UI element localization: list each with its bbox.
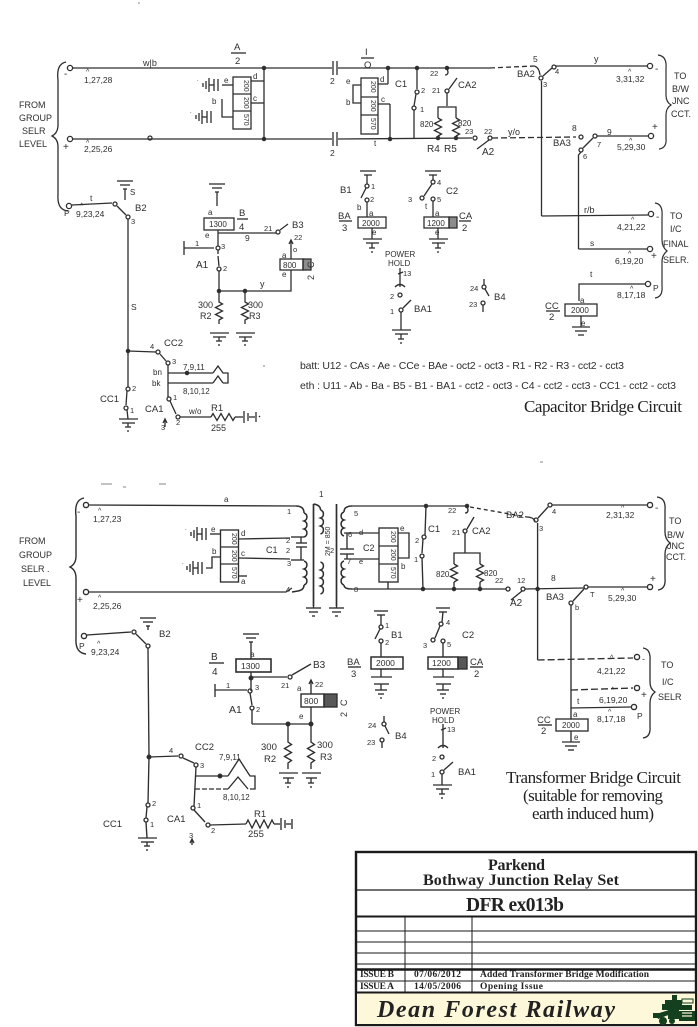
wire 7,9,11 with link bbox=[168, 372, 213, 374]
svg-text:2: 2 bbox=[330, 148, 335, 158]
svg-text:9,23,24: 9,23,24 bbox=[76, 209, 105, 219]
contact CA2 bbox=[430, 69, 476, 95]
svg-text:24: 24 bbox=[470, 284, 478, 293]
svg-text:GROUP: GROUP bbox=[19, 113, 52, 123]
svg-text:C1: C1 bbox=[428, 524, 440, 535]
svg-text:4: 4 bbox=[169, 746, 173, 755]
svg-text:O: O bbox=[364, 60, 371, 71]
wire 8,10,12 bbox=[168, 382, 213, 384]
svg-text:1300: 1300 bbox=[209, 220, 227, 229]
svg-text:22: 22 bbox=[495, 576, 503, 585]
resistor R1 255 2 bbox=[246, 820, 274, 828]
svg-text:2: 2 bbox=[390, 292, 394, 301]
svg-text:b: b bbox=[346, 98, 351, 107]
coil2 stub e with capacitor bbox=[210, 533, 221, 535]
brace TO B/W JNC CCT 2 bbox=[657, 497, 670, 590]
contact BA3 2 bbox=[546, 573, 595, 612]
svg-text:570: 570 bbox=[389, 567, 396, 579]
svg-text:200: 200 bbox=[230, 533, 237, 545]
empty row line bbox=[356, 963, 696, 965]
svg-text:C: C bbox=[306, 261, 316, 268]
terminal 5,29,30 bbox=[648, 133, 653, 138]
ground above B4 relay bbox=[209, 183, 225, 185]
contact CC1 bbox=[100, 384, 136, 415]
svg-text:5: 5 bbox=[437, 195, 441, 204]
wire top rail dashed to BA2 bbox=[490, 66, 534, 68]
contact B2 bbox=[113, 202, 117, 206]
svg-text:LEVEL: LEVEL bbox=[23, 578, 51, 588]
svg-text:c: c bbox=[381, 95, 385, 104]
svg-text:-: - bbox=[64, 69, 67, 80]
winding ratio label bbox=[325, 527, 332, 556]
contact K13 power hold 2 bbox=[432, 725, 455, 763]
svg-text:3: 3 bbox=[543, 80, 547, 89]
contact C2 bbox=[431, 180, 435, 184]
ground CA/2 2 bbox=[442, 669, 444, 677]
svg-text:t: t bbox=[90, 193, 93, 203]
relay A/2 label bbox=[234, 42, 241, 67]
relay C/2 coil 800 bbox=[282, 251, 287, 279]
svg-text:1: 1 bbox=[431, 770, 435, 779]
svg-text:4: 4 bbox=[212, 667, 218, 678]
svg-text:TO: TO bbox=[674, 71, 686, 81]
battery end R1 2 bbox=[280, 818, 282, 830]
wire BA2-3 vertical down 2 bbox=[537, 523, 539, 660]
terminal label 2,25,26 bbox=[63, 140, 113, 154]
svg-text:3: 3 bbox=[131, 217, 135, 226]
R820 bracket 2 bbox=[454, 553, 480, 564]
wire t row 2 bbox=[571, 690, 631, 708]
wire 9 to terminal bbox=[597, 135, 648, 137]
wire to B3 2 bbox=[253, 676, 287, 678]
svg-text:2: 2 bbox=[330, 546, 334, 555]
svg-text:2000: 2000 bbox=[362, 219, 380, 228]
svg-text:DFR ex013b: DFR ex013b bbox=[466, 895, 564, 916]
relay BA/3 coil 2000 2 bbox=[347, 657, 360, 680]
wire C/2 top arrow 22 2 bbox=[310, 680, 312, 694]
empty row line bbox=[356, 941, 696, 943]
relay B/4 coil 1300 bbox=[205, 208, 245, 240]
svg-text:200: 200 bbox=[389, 549, 396, 561]
svg-text:07/06/2012: 07/06/2012 bbox=[414, 970, 461, 980]
svg-text:LEVEL: LEVEL bbox=[19, 139, 47, 149]
svg-text:CA1: CA1 bbox=[145, 404, 163, 415]
svg-text:21: 21 bbox=[432, 86, 440, 95]
battery ground R3 2 bbox=[302, 772, 321, 774]
svg-text:2: 2 bbox=[256, 705, 260, 714]
svg-text:R1: R1 bbox=[211, 403, 223, 414]
svg-text:14/05/2006: 14/05/2006 bbox=[414, 982, 461, 992]
svg-text:23: 23 bbox=[465, 127, 473, 136]
ground BA/3 bbox=[371, 228, 373, 239]
svg-text:bn: bn bbox=[153, 368, 162, 377]
svg-text:200: 200 bbox=[230, 550, 237, 562]
wire to R1 2 bbox=[210, 824, 246, 825]
wire top rail right 2 bbox=[352, 505, 467, 507]
terminal label P 9,23,24 bbox=[64, 193, 105, 219]
battery symbol above B1 bbox=[360, 170, 376, 172]
svg-text:a: a bbox=[250, 650, 255, 659]
svg-text:300: 300 bbox=[261, 742, 277, 753]
terminal 3,31,32 bbox=[647, 63, 652, 68]
svg-text:2: 2 bbox=[462, 223, 467, 234]
svg-text:ISSUE B: ISSUE B bbox=[360, 970, 395, 980]
battery symbol above C2 2 bbox=[436, 607, 450, 609]
svg-text:a: a bbox=[241, 577, 246, 586]
svg-text:6: 6 bbox=[348, 530, 352, 539]
svg-text:.: . bbox=[182, 560, 184, 566]
junction B2 to CC2 bbox=[126, 349, 129, 352]
wire top rail 2 bbox=[89, 505, 296, 506]
svg-text:8,10,12: 8,10,12 bbox=[183, 387, 210, 396]
transformer T2 secondary winding bbox=[344, 506, 352, 512]
svg-text:3: 3 bbox=[342, 223, 347, 234]
svg-text:B2: B2 bbox=[159, 629, 171, 640]
wire top rail cont bbox=[338, 67, 490, 69]
svg-text:1200: 1200 bbox=[432, 658, 451, 668]
contact A2 2 bbox=[495, 576, 525, 609]
wire CC2 down bbox=[167, 365, 169, 397]
svg-text:2000: 2000 bbox=[376, 658, 395, 668]
svg-text:C2: C2 bbox=[462, 630, 474, 641]
svg-text:2: 2 bbox=[211, 826, 215, 835]
relay BA/3 coil 2000 bbox=[338, 209, 377, 237]
resistor R2 300 2 bbox=[285, 724, 292, 769]
svg-text:21: 21 bbox=[281, 681, 289, 690]
svg-text:R3: R3 bbox=[320, 752, 332, 763]
svg-text:SELR.: SELR. bbox=[663, 255, 689, 265]
wire P row to B2 2 bbox=[87, 632, 131, 635]
svg-text:T: T bbox=[590, 590, 595, 599]
svg-text:22: 22 bbox=[294, 233, 302, 242]
svg-text:570: 570 bbox=[242, 114, 249, 126]
svg-text:t: t bbox=[590, 269, 593, 279]
terminal circle P row bbox=[66, 203, 71, 208]
contact B3 2 bbox=[288, 675, 292, 679]
svg-text:Capacitor Bridge Circuit: Capacitor Bridge Circuit bbox=[524, 397, 682, 416]
svg-text:e: e bbox=[205, 231, 210, 240]
title block outer border bbox=[356, 852, 696, 1025]
wire C/2 bottom 2 bbox=[310, 707, 312, 724]
svg-text:3: 3 bbox=[423, 641, 427, 650]
A/2 stub b with capacitor bbox=[222, 99, 233, 117]
terminal circle mid rail 2 bbox=[83, 589, 88, 594]
svg-text:Dean Forest Railway: Dean Forest Railway bbox=[376, 997, 615, 1023]
svg-text:7,9,11: 7,9,11 bbox=[183, 363, 205, 372]
empty row line bbox=[356, 952, 696, 954]
svg-text:A2: A2 bbox=[482, 147, 495, 158]
svg-text:1200: 1200 bbox=[427, 219, 445, 228]
svg-text:8,17,18: 8,17,18 bbox=[597, 714, 626, 724]
relay CC/2 bbox=[545, 296, 586, 328]
svg-text:R2: R2 bbox=[264, 754, 276, 765]
svg-text:t: t bbox=[374, 139, 377, 148]
ground R3 bbox=[236, 332, 255, 334]
svg-text:-: - bbox=[77, 507, 80, 518]
svg-text:+: + bbox=[651, 251, 657, 262]
svg-text:255: 255 bbox=[248, 829, 264, 840]
svg-text:BA3: BA3 bbox=[546, 592, 564, 603]
coil2 stub a bbox=[239, 575, 248, 577]
wire C/2 top up arrow 22 bbox=[290, 240, 292, 259]
issue A row line bbox=[356, 992, 696, 994]
svg-text:+: + bbox=[652, 122, 658, 133]
svg-text:A1: A1 bbox=[196, 260, 209, 271]
terminal circle top rail 2 bbox=[83, 502, 88, 507]
svg-text:2: 2 bbox=[541, 726, 546, 737]
svg-text:3: 3 bbox=[408, 195, 412, 204]
svg-text:1: 1 bbox=[385, 621, 389, 630]
svg-text:23: 23 bbox=[367, 738, 375, 747]
wire P row to B2 bbox=[72, 203, 112, 205]
relay CA/2 coil 1200 bbox=[435, 209, 473, 237]
A/2 stub c bbox=[251, 102, 264, 104]
svg-text:B1: B1 bbox=[391, 630, 403, 641]
svg-text:4,21,22: 4,21,22 bbox=[597, 666, 626, 676]
svg-text:a: a bbox=[224, 495, 229, 504]
svg-text:y/o: y/o bbox=[508, 127, 520, 137]
battery symbol above C2 bbox=[425, 170, 441, 172]
svg-text:d: d bbox=[253, 72, 257, 81]
svg-text:1: 1 bbox=[130, 406, 134, 415]
svg-text:I/C: I/C bbox=[662, 677, 674, 687]
wire A1 down bbox=[218, 271, 220, 291]
contact B1 2 bbox=[379, 625, 383, 629]
svg-text:3: 3 bbox=[287, 559, 291, 568]
wire 4,21,22 row dashed bbox=[538, 658, 633, 660]
wire bottom rail 2 bbox=[89, 588, 292, 592]
svg-text:R2: R2 bbox=[200, 311, 212, 321]
wire bottom rail cont bbox=[338, 138, 472, 139]
issue B row line bbox=[356, 980, 696, 982]
coil2r bottom stub bbox=[387, 582, 389, 589]
relay coil box 2 right bbox=[379, 528, 398, 582]
divider line bbox=[356, 889, 696, 891]
I/O left bracket e b bbox=[353, 85, 361, 103]
svg-text:CCT.: CCT. bbox=[666, 552, 686, 562]
svg-text:CC2: CC2 bbox=[164, 338, 183, 349]
svg-text:CCT.: CCT. bbox=[671, 109, 691, 119]
transformer middle winding bbox=[314, 504, 321, 510]
svg-text:13: 13 bbox=[403, 269, 411, 278]
svg-text:t: t bbox=[577, 696, 580, 706]
svg-text:4: 4 bbox=[286, 585, 290, 594]
wire rail under A1 2 bbox=[252, 723, 311, 725]
svg-text:BA1: BA1 bbox=[458, 767, 476, 778]
svg-text:9,23,24: 9,23,24 bbox=[91, 647, 120, 657]
svg-text:CA1: CA1 bbox=[167, 814, 185, 825]
wire 8,10,12 2 bbox=[195, 788, 228, 790]
ground above B4 relay 2 bbox=[243, 633, 259, 635]
node C1 top bbox=[415, 66, 418, 69]
capacitor 2 in bottom rail bbox=[332, 132, 334, 146]
svg-text:2: 2 bbox=[286, 536, 290, 545]
ground CA/2 bbox=[437, 228, 439, 239]
svg-text:+: + bbox=[650, 574, 656, 585]
svg-text:5: 5 bbox=[354, 509, 358, 518]
svg-text:I: I bbox=[365, 47, 368, 58]
ground CC1 bbox=[119, 418, 138, 420]
label w|b bbox=[142, 58, 157, 68]
svg-text:+: + bbox=[63, 142, 69, 153]
svg-text:Added Transformer Bridge Modif: Added Transformer Bridge Modification bbox=[480, 970, 650, 980]
svg-text:e: e bbox=[346, 77, 351, 86]
svg-text:1: 1 bbox=[197, 801, 201, 810]
svg-text:2: 2 bbox=[306, 275, 316, 280]
svg-text:1: 1 bbox=[173, 393, 177, 402]
svg-text:570: 570 bbox=[230, 567, 237, 579]
svg-text:B4: B4 bbox=[494, 292, 506, 303]
svg-text:I/C: I/C bbox=[670, 224, 682, 234]
svg-text:2: 2 bbox=[474, 669, 479, 680]
contact B1 bbox=[365, 184, 369, 188]
svg-text:B1: B1 bbox=[340, 185, 352, 196]
svg-text:8: 8 bbox=[551, 573, 556, 583]
svg-text:1: 1 bbox=[371, 182, 375, 191]
svg-text:+: + bbox=[641, 690, 647, 701]
wire BA3-6 vertical down bbox=[579, 152, 582, 249]
relay A/2 coil box bbox=[233, 77, 251, 129]
coil2 stub b with capacitor bbox=[206, 557, 221, 568]
svg-text:Opening Issue: Opening Issue bbox=[480, 982, 543, 992]
svg-text:.: . bbox=[197, 77, 199, 83]
svg-text:-: - bbox=[655, 503, 658, 514]
column divider 2 bbox=[471, 916, 473, 992]
svg-text:R5: R5 bbox=[444, 144, 457, 155]
contact C2 2 bbox=[439, 622, 443, 626]
contact B3 bbox=[276, 230, 280, 234]
svg-text:FINAL: FINAL bbox=[663, 239, 689, 249]
svg-text:B: B bbox=[211, 652, 218, 663]
svg-text:200: 200 bbox=[242, 80, 249, 92]
wire to BA3 2 bbox=[525, 588, 584, 589]
svg-text:CC1: CC1 bbox=[103, 819, 122, 830]
svg-text:y: y bbox=[260, 279, 265, 289]
wire B/4 to junction 2 bbox=[250, 672, 252, 691]
wire to terminal 2,31,32 bbox=[552, 504, 647, 506]
wire y to terminal bbox=[556, 65, 647, 67]
svg-text:23: 23 bbox=[469, 300, 477, 309]
svg-text:1: 1 bbox=[319, 490, 324, 499]
svg-text:1: 1 bbox=[390, 307, 394, 316]
svg-text:Bothway Junction Relay Set: Bothway Junction Relay Set bbox=[423, 872, 620, 889]
battery symbol above B1 2 bbox=[374, 610, 388, 612]
coil2 stub d bbox=[239, 538, 291, 539]
wire y/o dashed bbox=[492, 137, 576, 138]
svg-text:d: d bbox=[241, 529, 245, 538]
svg-text:P: P bbox=[64, 208, 70, 218]
terminal circle P row 2 bbox=[81, 633, 86, 638]
svg-text:B: B bbox=[239, 208, 245, 219]
terminal circle top rail bbox=[67, 65, 72, 70]
svg-text:4: 4 bbox=[239, 222, 244, 233]
train icon bbox=[653, 995, 695, 1025]
svg-text:2: 2 bbox=[286, 546, 290, 555]
contact C1 2 bbox=[414, 524, 440, 564]
wire B2 down long 2 bbox=[148, 648, 149, 757]
svg-text:e: e bbox=[224, 76, 229, 85]
column divider 1 bbox=[404, 916, 406, 992]
ground BA1 bbox=[392, 329, 411, 331]
resistor R5 820 bbox=[453, 118, 460, 136]
svg-text:t: t bbox=[425, 202, 428, 211]
svg-text:POWER: POWER bbox=[385, 250, 415, 259]
capacitor C2 between taps 6-7 bbox=[340, 548, 354, 550]
svg-text:2: 2 bbox=[370, 195, 374, 204]
svg-text:d: d bbox=[359, 528, 363, 537]
svg-text:C2: C2 bbox=[446, 186, 458, 197]
wire dashed to BA2 2 bbox=[470, 507, 527, 517]
coil2 stub c bbox=[239, 558, 291, 559]
ground CC1 2 bbox=[138, 837, 157, 839]
wire t row bbox=[579, 284, 645, 301]
svg-text:eth : U11 - Ab - Ba - B5 - B1: eth : U11 - Ab - Ba - B5 - B1 - BA1 - cc… bbox=[300, 380, 676, 392]
svg-text:1: 1 bbox=[414, 555, 418, 564]
terminal 8,17,18 bbox=[645, 281, 650, 286]
svg-text:800: 800 bbox=[283, 261, 297, 270]
svg-text:-: - bbox=[656, 212, 659, 223]
svg-text:TO: TO bbox=[661, 660, 673, 670]
svg-text:200: 200 bbox=[389, 531, 396, 543]
svg-text:FROM: FROM bbox=[19, 536, 46, 546]
svg-text:TO: TO bbox=[670, 211, 682, 221]
resistor 820 left 2 bbox=[451, 564, 458, 582]
svg-text:BA3: BA3 bbox=[553, 138, 571, 149]
svg-text:c: c bbox=[253, 94, 257, 103]
svg-text:C1: C1 bbox=[266, 545, 278, 555]
svg-text:820: 820 bbox=[436, 570, 450, 579]
coil2r bracket e b bbox=[398, 533, 409, 558]
scan smudges bbox=[101, 3, 543, 487]
ground BA1 2 bbox=[433, 784, 452, 786]
divider line bbox=[356, 916, 696, 918]
A/2 right vertical wire bbox=[263, 68, 265, 139]
svg-text:8,10,12: 8,10,12 bbox=[223, 793, 250, 802]
junction B2 to CC2 2 bbox=[147, 755, 151, 759]
label POWER HOLD 2 bbox=[430, 707, 460, 725]
svg-text:300: 300 bbox=[248, 300, 263, 310]
svg-text:w/o: w/o bbox=[188, 407, 202, 416]
svg-text:s: s bbox=[590, 238, 594, 248]
node CA2 top bbox=[445, 66, 448, 69]
transformer T1 primary winding bbox=[296, 506, 304, 513]
wire CC2 down 2 bbox=[194, 767, 196, 806]
svg-text:21: 21 bbox=[452, 528, 460, 537]
svg-text:21: 21 bbox=[264, 224, 272, 233]
relay C/2 coil 800 2 bbox=[297, 684, 304, 721]
contact BA2 bbox=[517, 54, 559, 89]
svg-text:FROM: FROM bbox=[19, 100, 46, 110]
capacitor 2 in top rail bbox=[332, 61, 334, 75]
wire r/b row bbox=[542, 215, 649, 216]
svg-text:2: 2 bbox=[432, 754, 436, 763]
svg-text:+: + bbox=[77, 595, 83, 606]
svg-text:820: 820 bbox=[420, 120, 434, 129]
yellow banner bbox=[357, 994, 695, 1025]
svg-text:R4: R4 bbox=[427, 144, 440, 155]
wire BA3-b vertical down 2 bbox=[570, 605, 572, 690]
contact A2 bbox=[465, 127, 520, 158]
ground above B2 2 bbox=[140, 617, 156, 619]
brace TO I/C FINAL SELR bbox=[655, 203, 667, 298]
svg-text:P: P bbox=[653, 283, 659, 293]
ground core A bbox=[306, 607, 321, 609]
contact CC1 2 bbox=[103, 799, 156, 830]
battery ground R2 2 bbox=[279, 772, 298, 774]
terminal label 1,27,28 bbox=[64, 69, 113, 85]
svg-text:22: 22 bbox=[315, 680, 323, 689]
svg-text:2: 2 bbox=[330, 76, 335, 86]
